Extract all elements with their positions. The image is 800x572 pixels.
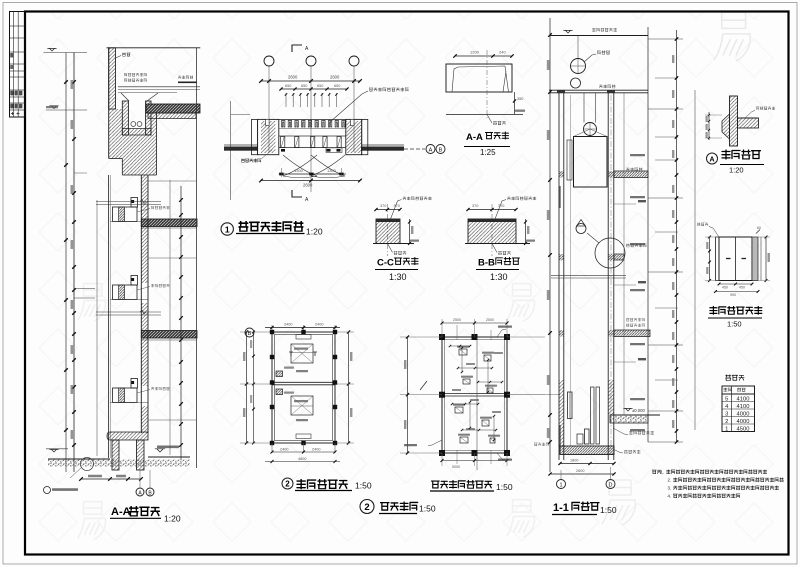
- svg-text:370: 370: [472, 204, 478, 208]
- svg-text:2600: 2600: [303, 183, 313, 188]
- svg-text:B: B: [248, 331, 252, 337]
- svg-text:2400: 2400: [280, 448, 288, 452]
- shaft plan interior labels: [294, 348, 308, 350]
- corbel dimension: [708, 112, 710, 140]
- 1-1 right dimension connectors: [648, 38, 683, 40]
- A-A central wall: [141, 175, 148, 219]
- AC plan sill anchors: [281, 149, 285, 152]
- bearing wall bottom leader: [492, 244, 497, 253]
- corbel wall: [730, 96, 738, 146]
- A-A upper wall mass: [109, 109, 123, 159]
- svg-text:1: 1: [225, 225, 230, 235]
- machine room plan bottom dimension: [441, 453, 443, 466]
- svg-text:2.: 2.: [668, 478, 672, 483]
- svg-text:A-A: A-A: [466, 132, 483, 143]
- svg-text:900: 900: [730, 293, 736, 297]
- 1-1 car guide centerline: [610, 95, 612, 455]
- svg-text:450: 450: [722, 286, 728, 290]
- bearing wall hatched body: [468, 219, 516, 244]
- AC plan louver posts: [279, 135, 346, 137]
- svg-text:650: 650: [301, 84, 307, 88]
- svg-text:4500: 4500: [737, 426, 750, 432]
- 1-1 pit floor: [560, 446, 614, 455]
- AC plan wall poche left: [224, 144, 258, 146]
- machine room plan top dimension: [441, 319, 443, 337]
- shaft plan right dimension: [348, 332, 350, 443]
- 1-1 slab stub lower: [614, 330, 650, 337]
- svg-text:2: 2: [364, 502, 369, 513]
- 1-1 ground slab right: [610, 415, 648, 423]
- elevator detail title bubble: [360, 500, 374, 514]
- A-A gutter funnel: [121, 93, 129, 101]
- shaft plan upper car: [291, 344, 313, 363]
- 1-1 buffers and rails: [568, 392, 573, 419]
- shaft plan guide rails upper: [289, 352, 317, 356]
- svg-text:240: 240: [499, 50, 506, 55]
- A-A gutter: [122, 101, 128, 135]
- svg-text:A-A: A-A: [111, 506, 131, 518]
- 1-1 shaft right wall: [607, 93, 609, 460]
- svg-text:A: A: [709, 157, 714, 164]
- 1-1 grid bubbles: [557, 480, 566, 489]
- AC plan condenser leader label: [330, 91, 368, 122]
- bearing detail base line: [446, 114, 523, 116]
- svg-text:4000: 4000: [737, 419, 750, 425]
- A-A break line pair upper: [96, 201, 161, 203]
- 1-1 shaft left wall: [558, 93, 560, 460]
- machine room plan center line: [476, 337, 478, 470]
- svg-text:1:50: 1:50: [419, 504, 436, 514]
- svg-text:A: A: [429, 148, 433, 154]
- title block text blobs: [10, 53, 13, 58]
- svg-text:3.: 3.: [668, 486, 672, 491]
- A-A window leader label: [137, 390, 150, 394]
- 1-1 right rotated numbers: [672, 55, 674, 63]
- floor table: [722, 386, 755, 432]
- 1-1 pit left label: [534, 443, 549, 446]
- A-A window assembly: [113, 285, 138, 300]
- AC plan left label: [241, 159, 261, 163]
- AC plan top dimension line 2: [281, 88, 347, 90]
- 1-1 detail callout circle: [595, 238, 625, 268]
- shaft plan upper counterweight: [276, 371, 283, 377]
- 1-1 counterweight: [567, 140, 572, 180]
- bearing detail right dimension: [514, 92, 516, 114]
- svg-text:4800: 4800: [298, 457, 306, 461]
- svg-text:1:20: 1:20: [164, 514, 181, 524]
- shaft plan upper door: [296, 335, 311, 340]
- 1-1 machine room roof line: [549, 35, 648, 37]
- svg-text:1:20: 1:20: [729, 166, 744, 175]
- right long vertical line: [694, 90, 696, 430]
- A-A window plane line: [96, 200, 98, 456]
- bearing wall right dimension: [409, 219, 411, 244]
- AC plan swing arcs crossed: [283, 155, 345, 176]
- A-A window leader label: [137, 287, 150, 291]
- svg-text:2500: 2500: [453, 318, 461, 322]
- svg-text:C-C: C-C: [377, 258, 394, 269]
- shaft plan lower door: [296, 434, 311, 439]
- 1-1 bottom dimensions: [560, 463, 614, 465]
- landing door bottom dimensions: [719, 283, 752, 285]
- svg-text:5: 5: [725, 396, 728, 402]
- svg-text:1: 1: [725, 426, 728, 432]
- machine room plan outer walls: [442, 337, 507, 453]
- A-A section left dimension numbers: [71, 80, 74, 89]
- AC plan bottom corner mark: [292, 190, 302, 197]
- svg-text:2400: 2400: [284, 323, 292, 327]
- svg-text:370: 370: [380, 204, 386, 208]
- bearing detail centerline: [486, 50, 488, 118]
- svg-text:60: 60: [757, 226, 761, 230]
- landing door title: [710, 306, 762, 314]
- 1-1 pit walls hatch: [559, 380, 564, 446]
- shaft plan walls: [272, 332, 335, 443]
- svg-text:650: 650: [285, 84, 291, 88]
- bearing wall top dimension: [376, 209, 400, 211]
- A-A floor slab 1: [141, 219, 197, 227]
- A-A ceiling lines: [118, 86, 200, 88]
- 1-1 slab stub right upper: [614, 171, 648, 178]
- svg-text:4.: 4.: [668, 494, 672, 499]
- bearing wall right dimension: [525, 219, 527, 244]
- title block table: [10, 12, 26, 118]
- watermark glyph right-bottom: [602, 480, 635, 525]
- svg-text:350: 350: [517, 97, 523, 101]
- A-A right verticals: [169, 180, 171, 455]
- 1-1 floor level small marks: [638, 200, 646, 202]
- A-A parapet leader label: [116, 56, 122, 59]
- landing door top leader: [709, 227, 719, 238]
- 1-1 section left dimension line: [549, 18, 551, 472]
- shaft plan inner dim marks: [291, 352, 313, 354]
- AC plan centerline to bubbles: [404, 148, 425, 150]
- A-A section left dimension line: [65, 53, 67, 473]
- 1-1 vertical text bars: [559, 186, 561, 208]
- bearing wall leader label: [391, 200, 402, 220]
- corbel label leader: [745, 111, 755, 119]
- bearing detail dimension top: [455, 55, 512, 57]
- svg-text:1:25: 1:25: [480, 148, 496, 157]
- 1-1 car door plane line: [570, 95, 572, 446]
- floor table title: [726, 375, 744, 381]
- machine room interior dim chains: [458, 367, 492, 369]
- machine room plan mid wall: [442, 393, 507, 395]
- svg-text:650: 650: [317, 84, 323, 88]
- corbel slab: [738, 118, 759, 128]
- svg-text:650: 650: [334, 84, 340, 88]
- 1-1 elevator car: [574, 137, 608, 188]
- A-A bottom dimension: [81, 478, 141, 480]
- svg-text:370: 370: [498, 204, 504, 208]
- corbel title: [722, 150, 761, 159]
- bearing wall centerline: [387, 204, 389, 256]
- A-A section top level line: [44, 52, 88, 54]
- AC plan top dimension line 1: [261, 80, 360, 82]
- svg-text:1:30: 1:30: [490, 272, 508, 282]
- AC plan left pier: [252, 119, 258, 154]
- svg-text:1.: 1.: [661, 470, 665, 475]
- svg-text:1:30: 1:30: [389, 272, 407, 282]
- bearing wall hatched body: [376, 219, 400, 244]
- svg-text:1:20: 1:20: [306, 227, 323, 237]
- svg-text:B: B: [439, 148, 443, 154]
- A-A ground detail circle: [81, 458, 94, 471]
- landing door left dimension: [709, 237, 711, 281]
- svg-text:1:50: 1:50: [496, 482, 513, 492]
- svg-text:2500: 2500: [486, 318, 494, 322]
- svg-text:1800: 1800: [570, 459, 578, 463]
- svg-text:450: 450: [739, 286, 745, 290]
- machine room extension stubs: [456, 325, 458, 340]
- A-A window assembly: [113, 207, 138, 222]
- 1-1 traction machine: [577, 36, 579, 59]
- machine room plan break mark: [420, 381, 427, 390]
- svg-text:1:50: 1:50: [727, 320, 742, 329]
- svg-text:1200: 1200: [470, 50, 480, 55]
- svg-text:2400: 2400: [315, 323, 323, 327]
- A-A outer face line: [108, 175, 110, 458]
- shaft plan wall piers: [270, 330, 274, 334]
- bearing wall bottom leader: [388, 244, 393, 253]
- svg-text:2400: 2400: [312, 448, 320, 452]
- shaft plan left dimension lines: [246, 332, 248, 443]
- AC plan bottom dimension line 1: [279, 173, 346, 175]
- shaft plan top dimension: [265, 327, 340, 329]
- machine room plan right extension: [507, 336, 545, 338]
- machine room plan corner columns: [439, 334, 445, 340]
- AC plan right pier: [346, 119, 362, 154]
- A-A right dimension line: [180, 186, 182, 460]
- elevator detail title: [380, 502, 417, 511]
- A-A pit curb: [107, 432, 148, 440]
- svg-text:D: D: [609, 483, 613, 489]
- AC plan title number bubble: [221, 223, 233, 235]
- bearing detail body: [446, 64, 512, 92]
- AC plan louver comb teeth: [279, 119, 346, 121]
- A-A grid bubbles: [136, 488, 144, 496]
- svg-text:4000: 4000: [737, 411, 750, 417]
- svg-text:370: 370: [394, 204, 400, 208]
- shaft plan axis bubble B: [245, 328, 254, 337]
- bearing wall base line: [465, 243, 530, 245]
- A-A section short level lines: [74, 288, 95, 290]
- A-A section mid level line: [46, 109, 87, 111]
- landing door right dimension: [765, 237, 767, 281]
- bearing wall base line: [373, 243, 414, 245]
- svg-text:2: 2: [285, 480, 290, 489]
- machine room plan left extension: [400, 336, 442, 338]
- 1-1 right dimension column verticals: [647, 27, 649, 442]
- shaft plan title bubble: [282, 478, 293, 489]
- A-A break line pair lower: [96, 311, 161, 313]
- svg-text:2600: 2600: [576, 469, 584, 473]
- corbel bracket: [722, 114, 730, 139]
- 1-1 break pair: [551, 274, 626, 276]
- watermark glyph center-bottom: [507, 500, 535, 538]
- bearing wall centerline: [491, 204, 493, 256]
- A-A ground line and hatch: [48, 458, 110, 460]
- bearing wall leader label: [495, 200, 506, 220]
- AC plan axis bubbles A B: [426, 145, 435, 154]
- 1-1 right dimension ticks: [675, 37, 678, 40]
- shaft plan lower car: [291, 396, 313, 415]
- shaft plan lower counterweight: [276, 389, 283, 395]
- svg-text:1-1: 1-1: [553, 502, 569, 514]
- 1-1 machine floor label: [599, 85, 615, 88]
- A-A window assembly: [113, 388, 138, 403]
- 1-1 pit leaders: [613, 428, 628, 435]
- 1-1 traction machine leader: [584, 54, 596, 62]
- corbel title bubble: [707, 153, 718, 164]
- svg-text:4100: 4100: [737, 404, 750, 410]
- machine room holes: [459, 349, 467, 355]
- 1-1 slab stub mid: [614, 254, 624, 260]
- A-A roof slab dark band: [146, 104, 200, 113]
- AC plan title: [239, 222, 303, 232]
- A-A section ground level mark: [49, 449, 58, 452]
- svg-text:1300: 1300: [294, 168, 304, 173]
- svg-text:1:50: 1:50: [600, 505, 617, 515]
- watermark glyph center-mid: [507, 284, 535, 322]
- 1-1 machine room floor: [549, 89, 648, 91]
- AC plan louver drop lines: [285, 93, 287, 107]
- watermark glyph left-mid: [78, 284, 106, 322]
- AC plan bottom dimension line 2: [261, 180, 360, 182]
- svg-text:±0.000: ±0.000: [632, 408, 645, 413]
- A-A window leader label: [137, 209, 150, 213]
- bearing wall top dimension: [468, 209, 516, 211]
- A-A outdoor level mark: [155, 449, 165, 452]
- machine room hole dim marks: [466, 363, 475, 365]
- 1-1 wall floor hatch crossings: [559, 171, 564, 178]
- machine room leaders: [497, 329, 506, 337]
- notes block: [652, 470, 661, 474]
- landing door frame: [716, 237, 720, 281]
- svg-text:3: 3: [725, 411, 728, 417]
- landing door panels: [735, 237, 737, 281]
- svg-text:2: 2: [725, 419, 728, 425]
- A-A roof labels: [124, 73, 146, 76]
- 1-1 ropes and sheave: [583, 93, 585, 123]
- 1-1 section left rotated dims: [547, 60, 550, 70]
- svg-text:1:50: 1:50: [355, 481, 372, 491]
- machine room plan left dimension: [407, 337, 409, 453]
- shaft plan top extension lines: [271, 325, 273, 332]
- landing door top marks: [756, 230, 760, 234]
- shaft plan bottom extension and dims: [271, 443, 273, 453]
- 1-1 right level labels: [630, 154, 645, 156]
- landing door handles: [726, 258, 731, 260]
- A-A right extension lines: [148, 180, 196, 182]
- svg-text:2600: 2600: [288, 75, 298, 80]
- svg-text:B-B: B-B: [478, 258, 495, 269]
- A-A bottom detail bubble: [44, 487, 51, 494]
- AC plan wall poche right: [362, 144, 404, 146]
- A-A parapet wall: [109, 48, 116, 109]
- svg-text:5000: 5000: [452, 465, 460, 469]
- bearing detail leader: [487, 115, 492, 124]
- svg-text:1300: 1300: [327, 168, 337, 173]
- 1-1 interior vertical line: [623, 93, 625, 415]
- watermark glyph left-bottom: [78, 502, 106, 540]
- watermark glyph top-right: [714, 12, 750, 61]
- svg-text:4100: 4100: [737, 396, 750, 402]
- svg-text:2600: 2600: [330, 75, 340, 80]
- AC plan grid bubbles: [264, 56, 274, 66]
- machine room plan title: [431, 480, 491, 488]
- svg-text:1: 1: [559, 483, 562, 489]
- shaft plan title: [297, 480, 347, 489]
- AC plan top corner mark: [292, 45, 302, 52]
- A-A floor slab 2: [141, 331, 197, 339]
